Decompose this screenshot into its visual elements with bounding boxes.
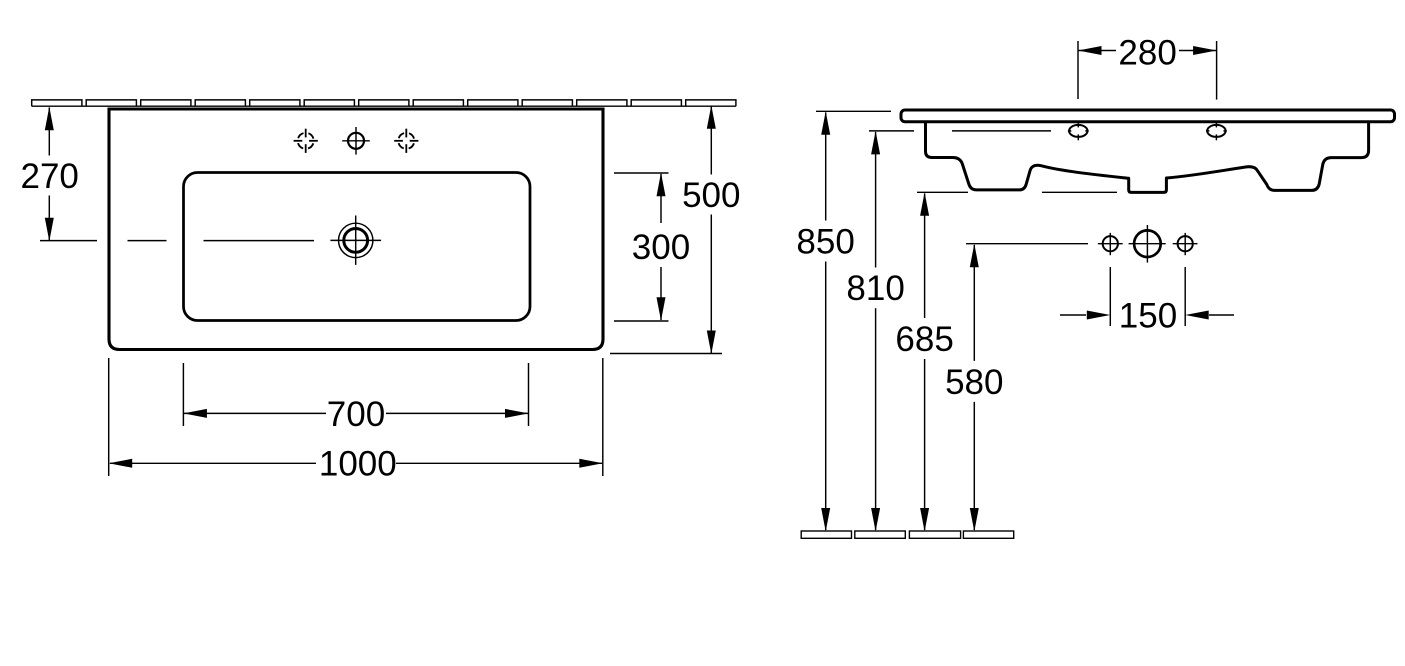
svg-text:150: 150 — [1119, 296, 1177, 335]
svg-text:500: 500 — [682, 176, 740, 215]
svg-text:850: 850 — [796, 222, 854, 261]
svg-text:580: 580 — [945, 363, 1003, 402]
svg-text:685: 685 — [895, 320, 953, 359]
svg-text:300: 300 — [632, 228, 690, 267]
svg-text:810: 810 — [846, 269, 904, 308]
svg-text:270: 270 — [20, 157, 78, 196]
svg-text:280: 280 — [1118, 33, 1176, 72]
svg-text:1000: 1000 — [319, 445, 397, 484]
svg-text:700: 700 — [327, 395, 385, 434]
